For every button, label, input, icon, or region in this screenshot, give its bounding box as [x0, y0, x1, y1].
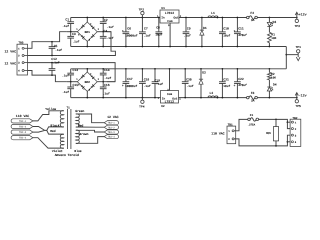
- wire Green lead to TB3-1: [76, 114, 104, 123]
- svg-text:TP4: TP4: [139, 105, 145, 108]
- svg-text:.1uf: .1uf: [62, 73, 69, 77]
- svg-text:4: 4: [18, 70, 20, 73]
- capacitor C11 470uf (post-L1 bulk): [234, 18, 248, 47]
- wire R1 to common bus: [268, 43, 270, 47]
- wire TB1 pin1 to fuse F1: [234, 119, 248, 130]
- svg-text:C18: C18: [144, 78, 150, 82]
- svg-text:C14: C14: [104, 68, 110, 72]
- svg-text:T1: T1: [67, 106, 71, 109]
- node common junction: [285, 54, 287, 56]
- power symbol -12v: [295, 93, 306, 98]
- svg-text:U2: U2: [161, 105, 165, 108]
- node D4 on rail: [269, 97, 271, 99]
- svg-text:1: 1: [76, 78, 78, 81]
- wire fuse F1 to TB2 pin1: [259, 119, 291, 122]
- transformer T1 core: [68, 109, 71, 149]
- wire BR2 + output to common bus: [86, 69, 88, 72]
- wire BR2 right node: [97, 81, 115, 83]
- svg-text:BR2: BR2: [85, 81, 91, 84]
- node D2 bottom: [200, 97, 202, 99]
- svg-text:TB2-4: TB2-4: [19, 137, 27, 140]
- svg-text:1: 1: [76, 28, 78, 31]
- svg-text:10uf: 10uf: [223, 34, 230, 38]
- node -12v rail end: [296, 97, 298, 99]
- svg-text:.1uf: .1uf: [53, 60, 60, 64]
- node C19 top: [154, 68, 156, 70]
- svg-text:In: In: [161, 16, 165, 19]
- node R2 branch on common bus: [269, 68, 271, 70]
- node U2 Com on common bus: [169, 68, 171, 70]
- terminal block TB2 (to transformer primary): [290, 117, 301, 147]
- terminal tag TB3-4: [104, 135, 118, 139]
- node L1 right: [217, 17, 219, 19]
- svg-text:F2: F2: [250, 11, 254, 15]
- svg-text:C17: C17: [127, 77, 133, 81]
- node C16 bottom on rail: [102, 97, 104, 99]
- node C4 bottom on common bus: [102, 46, 104, 48]
- bridge rectifier BR2: [76, 72, 99, 92]
- wire U2 Com to common bus: [169, 69, 171, 91]
- node LED D3 branch on rail: [269, 17, 271, 19]
- node C10 bottom: [222, 46, 224, 48]
- node C19 bottom: [154, 97, 156, 99]
- node BR2 + on common bus: [86, 68, 88, 70]
- svg-text:+12v: +12v: [299, 12, 307, 16]
- capacitor C19 (U2 input cap): [152, 69, 164, 98]
- svg-text:3: 3: [89, 39, 91, 42]
- svg-text:TB3-1: TB3-1: [108, 122, 116, 125]
- svg-text:C16: C16: [104, 83, 110, 87]
- bridge rectifier BR1: [76, 22, 99, 42]
- wire common bus of positive supply (0V, top): [71, 46, 287, 48]
- op-amp U1 voltage regulator L7812: [157, 7, 182, 27]
- svg-text:2: 2: [18, 55, 20, 58]
- node C14 bottom / C16 top on BR2 right node: [102, 81, 104, 83]
- svg-text:1: 1: [18, 47, 20, 50]
- wire TB3 pin4 to BR2 left AC node: [28, 71, 67, 82]
- node C20 bottom: [184, 97, 186, 99]
- svg-text:C3: C3: [72, 32, 76, 36]
- svg-text:.1uf: .1uf: [103, 92, 110, 96]
- svg-text:MOV: MOV: [266, 132, 271, 135]
- wire BR2 - output to -raw rail: [86, 91, 88, 97]
- svg-text:L7812: L7812: [165, 11, 174, 15]
- capacitor C8 (U1 input cap): [155, 18, 162, 47]
- capacitor C6 10000uf (main filter +): [122, 18, 138, 47]
- LED D3 (+12v indicator): [267, 20, 276, 26]
- svg-text:110 VAC: 110 VAC: [211, 131, 224, 135]
- node +12v rail end: [296, 17, 298, 19]
- svg-text:Black: Black: [51, 124, 60, 128]
- node L2 right: [217, 97, 219, 99]
- wire Blue lead to TB3-4: [76, 137, 104, 144]
- test point TP5: [295, 98, 301, 108]
- svg-text:.1uf: .1uf: [62, 24, 69, 28]
- svg-text:12 VAC: 12 VAC: [5, 62, 17, 66]
- svg-text:U1: U1: [161, 7, 165, 10]
- svg-text:Brown: Brown: [79, 133, 88, 136]
- wire Brown lead to TB3-3: [76, 130, 104, 132]
- svg-text:.1uf: .1uf: [107, 25, 114, 29]
- node R1 on common bus: [269, 46, 271, 48]
- power symbol +12v: [295, 12, 306, 17]
- svg-text:TB2-2: TB2-2: [19, 126, 27, 129]
- svg-text:-: -: [83, 38, 85, 42]
- ground symbol (common): [296, 55, 300, 61]
- LED D4 (-12v indicator): [267, 83, 276, 91]
- svg-text:470uf: 470uf: [238, 83, 247, 87]
- node C11 bottom: [237, 46, 239, 48]
- svg-text:C7: C7: [144, 27, 148, 31]
- svg-text:2: 2: [295, 128, 297, 131]
- svg-text:F3: F3: [251, 91, 255, 95]
- wire LED D3 to resistor R1: [268, 26, 270, 32]
- terminal tag TB3-1: [104, 121, 118, 125]
- node C6 top: [125, 17, 127, 19]
- capacitor C16 (snubber bottom-right BR2): [100, 82, 110, 98]
- svg-text:2: 2: [228, 138, 230, 141]
- svg-text:BR1: BR1: [85, 31, 91, 34]
- node C21 top: [222, 68, 224, 70]
- wire TB2-2 to junction: [33, 127, 45, 131]
- terminal tag TB2-3: [11, 130, 33, 134]
- svg-text:+: +: [234, 83, 236, 87]
- svg-text:470uf: 470uf: [238, 33, 247, 37]
- diode D1 (protection, output to ground): [200, 18, 207, 47]
- node C2 bottom / C4 top on BR1 right node: [102, 31, 104, 33]
- wire TB2 pin1 to pin2 jumper: [287, 122, 290, 128]
- node C13 bottom / C15 top on BR2 left node: [70, 81, 72, 83]
- wire Red lead to TB3-2: [76, 126, 104, 128]
- svg-text:D1: D1: [203, 26, 207, 30]
- svg-text:TB3: TB3: [18, 42, 23, 45]
- svg-text:3A: 3A: [251, 100, 255, 103]
- svg-text:C8: C8: [156, 25, 160, 29]
- capacitor C4 (snubber bottom-right BR1): [100, 29, 114, 47]
- node C10 top: [222, 17, 224, 19]
- test point TP1: [296, 46, 302, 55]
- svg-text:1: 1: [228, 130, 230, 133]
- test point TP2: [139, 8, 145, 17]
- node MOV bottom: [275, 145, 277, 147]
- capacitor C15 (snubber bottom-left BR2): [62, 82, 78, 98]
- wire TB3 pin3 to BR2 right AC node: [28, 63, 116, 82]
- inductor L1: [208, 11, 218, 18]
- wire junction to Red lead: [47, 130, 64, 134]
- node D1 top: [201, 17, 203, 19]
- terminal tag TB2-2: [11, 124, 33, 128]
- capacitor C14 (snubber top-right BR2): [100, 68, 112, 82]
- transformer T1 secondary winding 1 (Green-Red): [76, 114, 80, 127]
- svg-text:TB2-1: TB2-1: [19, 120, 27, 123]
- node C22 bottom: [237, 97, 239, 99]
- transformer T1 primary winding 1 (Yellow-Black): [60, 111, 64, 127]
- capacitor C12 (across secondary 2): [49, 57, 60, 75]
- wire -12V rail (BR2 output to regulator U2 In): [71, 97, 161, 99]
- svg-text:C11: C11: [238, 27, 244, 31]
- svg-text:+: +: [122, 83, 124, 87]
- wire U1 Com to common bus: [169, 23, 171, 47]
- transformer T1 secondary winding 2 (Brown-Blue): [76, 130, 80, 143]
- svg-text:10uf: 10uf: [155, 33, 162, 37]
- wire LED D4 to rail: [268, 91, 270, 98]
- wire +12V rail (bridge BR1 output to regulator U1 In): [71, 17, 160, 19]
- svg-text:TP2: TP2: [139, 8, 145, 11]
- svg-text:TB3-3: TB3-3: [108, 131, 116, 134]
- svg-text:TB2: TB2: [292, 117, 297, 120]
- test point TP4: [139, 98, 145, 109]
- capacitor C18 (input bypass -): [139, 69, 151, 98]
- node D1 bottom: [201, 46, 203, 48]
- terminal tag TB3-2: [104, 125, 118, 129]
- svg-text:Red: Red: [78, 123, 84, 127]
- svg-text:L2: L2: [210, 91, 214, 95]
- node BR1 + on rail: [86, 17, 88, 19]
- terminal tag TB3-3: [104, 130, 118, 134]
- capacitor C22 470uf (post-L2 bulk): [234, 69, 248, 98]
- svg-text:110 VAC: 110 VAC: [16, 114, 29, 118]
- svg-text:C4: C4: [104, 29, 108, 33]
- node TB2 pin3/pin4 junction: [287, 141, 289, 143]
- svg-text:2: 2: [98, 28, 100, 31]
- svg-text:3: 3: [89, 89, 91, 92]
- svg-text:L7912: L7912: [165, 100, 174, 104]
- node C2 top on rail: [102, 17, 104, 19]
- node C9 top: [185, 17, 187, 19]
- node C5 bottom on pin2 wire: [51, 55, 53, 57]
- capacitor C3 (snubber bottom-left BR1): [67, 32, 79, 47]
- svg-text:TP3: TP3: [295, 25, 301, 28]
- svg-text:10K: 10K: [271, 37, 276, 40]
- svg-text:3A: 3A: [251, 19, 255, 22]
- svg-text:TP5: TP5: [295, 105, 301, 108]
- node C8 top: [158, 17, 160, 19]
- capacitor C5 (across secondary 1): [49, 42, 63, 56]
- svg-text:+: +: [122, 29, 124, 33]
- svg-text:2: 2: [98, 78, 100, 81]
- op-amp U2 voltage regulator L7912: [158, 88, 182, 108]
- svg-text:L1: L1: [211, 11, 215, 15]
- wire common bus of negative supply (0V, bottom): [71, 68, 287, 70]
- terminal tag TB2-1: [11, 119, 33, 123]
- svg-text:4: 4: [295, 141, 297, 144]
- svg-text:D2: D2: [202, 70, 206, 74]
- wire common bus to resistor R2: [268, 69, 270, 73]
- svg-text:10000uf: 10000uf: [125, 84, 137, 88]
- svg-text:C20: C20: [186, 78, 192, 82]
- svg-text:2: 2: [179, 98, 181, 101]
- wire BR2 left node: [67, 81, 78, 83]
- svg-text:.1uf: .1uf: [144, 84, 151, 88]
- svg-text:C2: C2: [104, 18, 108, 22]
- varistor MOV: [266, 119, 278, 145]
- wire BR1 left node: [67, 31, 78, 33]
- svg-text:3: 3: [295, 134, 297, 137]
- terminal tag TB2-4: [11, 136, 33, 140]
- wire BR1 - output to common bus: [86, 41, 88, 46]
- capacitor C21 (post-L2): [219, 69, 230, 98]
- capacitor C7 (input bypass +): [139, 18, 151, 47]
- capacitor C17 10000uf (main filter -): [122, 69, 138, 98]
- resistor R2 10K: [268, 72, 277, 80]
- svg-text:+: +: [234, 29, 236, 33]
- svg-text:10K: 10K: [271, 76, 276, 79]
- capacitor C2 (snubber top-right BR1): [100, 18, 114, 32]
- svg-text:C15: C15: [73, 83, 79, 87]
- node C17 bottom: [125, 97, 127, 99]
- diode D2 (protection, output to ground): [199, 69, 206, 98]
- wire TB2-4 to Violet lead: [33, 138, 64, 148]
- svg-text:1: 1: [295, 121, 297, 124]
- wire common junction to ground symbol: [286, 54, 298, 56]
- wire +12V rail (U1 Out to +12v terminal): [179, 17, 297, 19]
- svg-text:3: 3: [18, 62, 20, 65]
- svg-text:C10: C10: [223, 27, 229, 31]
- svg-text:.375A: .375A: [247, 124, 255, 127]
- wire BR1 right node: [97, 31, 111, 33]
- node C20 top: [184, 68, 186, 70]
- svg-text:12 VAC: 12 VAC: [107, 115, 119, 119]
- wire TB1 pin2 to TB2 pin4: [234, 139, 290, 146]
- wire -12V rail (U2 Out to -12v terminal): [179, 97, 297, 99]
- wire TB2 pin4 to pin3 jumper: [287, 135, 290, 142]
- wire TB2-1 to Yellow lead: [33, 111, 64, 121]
- svg-text:C19: C19: [154, 79, 160, 83]
- wire junction to Black lead: [45, 127, 64, 130]
- resistor R1 10K: [268, 32, 277, 43]
- capacitor C10 (post-L1): [219, 18, 230, 47]
- svg-text:.1uf: .1uf: [72, 40, 79, 44]
- node C11 top: [237, 17, 239, 19]
- node BR1 - on common bus: [86, 46, 88, 48]
- node C14 top on common bus: [102, 68, 104, 70]
- node BR2 - on rail: [86, 97, 88, 99]
- node C8 bottom: [158, 46, 160, 48]
- node C18 top: [142, 68, 144, 70]
- svg-text:10000uf: 10000uf: [125, 34, 137, 38]
- capacitor C9 (U1 output bypass): [183, 18, 191, 47]
- fuse F2 3A (+12v output fuse): [247, 11, 258, 22]
- svg-text:C5: C5: [54, 44, 58, 48]
- svg-text:TB1: TB1: [228, 124, 233, 127]
- svg-text:Amveco Toroid: Amveco Toroid: [55, 153, 79, 157]
- node C7 bottom: [142, 46, 144, 48]
- test point TP3: [295, 18, 301, 28]
- svg-text:C1: C1: [65, 18, 69, 22]
- svg-text:C13: C13: [73, 68, 79, 72]
- svg-text:C21: C21: [223, 78, 229, 82]
- node C12 top on pin3 wire: [51, 62, 53, 64]
- node TB2 pin1/pin2 junction: [287, 121, 289, 123]
- node U1 Com on common bus: [169, 46, 171, 48]
- wire rail to LED D3: [268, 18, 270, 23]
- wire BR1 + output to +raw rail: [86, 18, 88, 23]
- svg-text:+: +: [90, 72, 92, 76]
- node C1 bottom / C3 top on BR1 left node: [70, 31, 72, 33]
- svg-text:C6: C6: [127, 27, 131, 31]
- node C22 top: [237, 68, 239, 70]
- capacitor C1 (snubber top-left BR1): [62, 18, 74, 32]
- capacitor C13 (snubber top-left BR2): [62, 68, 78, 82]
- svg-text:12 VAC: 12 VAC: [5, 50, 17, 54]
- capacitor C20 (U2 output bypass): [182, 69, 194, 98]
- wire TB3 pin2 to BR1 right AC node: [28, 32, 116, 56]
- svg-text:.1uf: .1uf: [55, 48, 62, 52]
- svg-text:Com: Com: [167, 93, 172, 96]
- svg-text:10uf: 10uf: [223, 84, 230, 88]
- svg-text:Yellow: Yellow: [45, 107, 56, 111]
- svg-text:TB3-4: TB3-4: [108, 136, 116, 139]
- svg-text:Green: Green: [75, 110, 84, 113]
- fuse F3 3A (-12v output fuse): [247, 91, 258, 103]
- wire TB2-3 to junction: [33, 130, 45, 132]
- svg-text:.1uf: .1uf: [187, 84, 194, 88]
- terminal block TB3 (12 VAC secondary inputs): [17, 42, 28, 76]
- svg-text:D3: D3: [273, 20, 277, 24]
- wire TB3 pin1 to BR1 left AC node: [28, 32, 67, 49]
- node C17 top: [125, 68, 127, 70]
- svg-text:+: +: [90, 22, 92, 26]
- transformer T1 primary winding 2 (Red-Violet): [60, 134, 64, 148]
- node C6 bottom: [125, 46, 127, 48]
- svg-text:C22: C22: [238, 77, 244, 81]
- wire R2 to LED D4: [268, 80, 270, 87]
- svg-text:.1uf: .1uf: [184, 34, 191, 38]
- node C18/TP4 on rail: [142, 97, 144, 99]
- svg-text:TB2-3: TB2-3: [19, 131, 27, 134]
- inductor L2: [208, 91, 218, 97]
- node C12 bottom on pin4 wire: [51, 74, 53, 76]
- svg-text:F1: F1: [250, 114, 254, 117]
- svg-text:C9: C9: [187, 27, 191, 31]
- node D2 top: [200, 68, 202, 70]
- svg-text:.1uf: .1uf: [107, 36, 114, 40]
- terminal block TB1 (mains input): [227, 124, 236, 144]
- fuse F1 .375A: [247, 114, 258, 127]
- wire joining the two common buses at right: [285, 47, 287, 69]
- svg-text:.1uf: .1uf: [144, 34, 151, 38]
- svg-text:Com: Com: [167, 20, 172, 23]
- node C9 bottom: [185, 46, 187, 48]
- svg-text:D4: D4: [273, 83, 277, 87]
- svg-text:.1uf: .1uf: [156, 82, 163, 86]
- svg-text:Red: Red: [50, 129, 56, 133]
- node C7/TP2 on rail: [142, 17, 144, 19]
- node C21 bottom: [222, 97, 224, 99]
- svg-text:TB3-2: TB3-2: [108, 126, 116, 129]
- svg-text:-12v: -12v: [299, 94, 307, 98]
- node MOV top: [275, 119, 277, 121]
- node C5 top on pin1 wire: [51, 41, 53, 43]
- svg-text:Out: Out: [173, 16, 178, 19]
- svg-text:.1uf: .1uf: [104, 76, 111, 80]
- svg-text:-: -: [83, 88, 85, 92]
- svg-text:.1uf: .1uf: [62, 90, 69, 94]
- svg-text:TP1: TP1: [296, 46, 302, 49]
